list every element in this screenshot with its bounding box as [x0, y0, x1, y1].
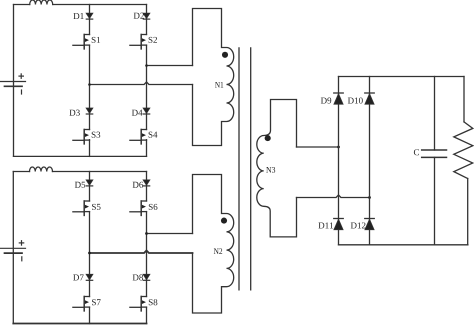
- battery V2: [1, 248, 26, 253]
- diode D3: [86, 108, 93, 114]
- diode D8: [143, 274, 150, 280]
- battery V2 plus sign: [19, 241, 23, 245]
- label D8: [133, 274, 143, 280]
- label S1: [92, 37, 100, 43]
- transistor S7 (MOSFET): [73, 297, 90, 311]
- label D10: [348, 98, 363, 104]
- label D7: [73, 275, 83, 281]
- wire node b2: leg3 midpoint to N2 bottom terminal, hop over leg4: [90, 250, 193, 253]
- transistor S5 (MOSFET): [73, 201, 90, 215]
- polarity dot N2: [221, 218, 227, 224]
- wire bridge leg 1 segments: [89, 5, 91, 35]
- label D11: [318, 222, 333, 228]
- wire rectifier bottom rail: [339, 244, 468, 246]
- diode D5: [86, 180, 93, 186]
- wire capacitor branch bottom: [434, 157, 436, 244]
- wire node a1: leg2 midpoint to N1 top terminal: [147, 65, 193, 67]
- transistor S6 (MOSFET): [130, 201, 147, 215]
- wire bridge leg 3 segments: [89, 172, 91, 202]
- transistor S2 (MOSFET): [130, 35, 147, 49]
- battery V1 minus tick: [21, 90, 23, 94]
- battery V1 plus sign: [19, 74, 23, 78]
- wire battery 1 vertical: [13, 5, 15, 157]
- battery V2 minus tick: [21, 257, 23, 261]
- label S7: [92, 299, 101, 305]
- label D6: [133, 182, 143, 188]
- label S5: [92, 204, 101, 210]
- label N3: [266, 167, 275, 173]
- wire top rail (bridge 2, left segment): [13, 171, 29, 173]
- wire rectifier leg a: [338, 77, 340, 245]
- label S2: [149, 37, 157, 43]
- label D2: [134, 13, 144, 19]
- wire top rail (bridge 1, left segment): [14, 4, 30, 6]
- diode D6: [143, 180, 150, 186]
- inductor L2: [30, 167, 53, 172]
- label N2: [214, 248, 222, 254]
- wire bottom rail (bridge 1): [14, 155, 147, 157]
- transformer core: [239, 48, 251, 290]
- wire capacitor branch top: [434, 77, 436, 151]
- label C: [414, 149, 419, 155]
- wire N3 bottom terminal to rectifier leg b, hop over leg a: [297, 195, 370, 198]
- wire battery 2 vertical: [12, 172, 14, 324]
- wire load branch top: [463, 77, 465, 122]
- resistor R load: [454, 122, 473, 179]
- label N1: [215, 82, 223, 88]
- wire N3 top terminal to rectifier leg a: [297, 146, 339, 148]
- transformer primary winding N1: [193, 9, 234, 146]
- wire rectifier top rail: [339, 76, 465, 78]
- label D1: [73, 13, 83, 19]
- diode D1: [86, 13, 93, 19]
- capacitor C: [422, 150, 447, 157]
- polarity dot N1: [222, 52, 228, 58]
- wire load branch bottom: [467, 179, 469, 245]
- diode D11: [334, 219, 344, 230]
- wire bridge leg 4 segments: [146, 172, 148, 202]
- label S3: [92, 132, 101, 138]
- diode D12: [365, 219, 375, 230]
- label D12: [351, 222, 366, 228]
- diode D9: [334, 93, 344, 104]
- label S8: [149, 299, 158, 305]
- label S6: [149, 204, 158, 210]
- wire bottom rail (bridge 2): [13, 323, 146, 325]
- diode D7: [86, 274, 93, 280]
- polarity dot N3: [265, 135, 271, 141]
- label D3: [69, 110, 79, 116]
- transistor S3 (MOSFET): [73, 130, 90, 144]
- transistor S8 (MOSFET): [130, 297, 147, 311]
- diode D10: [365, 93, 375, 104]
- label D9: [321, 98, 331, 104]
- wire rectifier leg b: [369, 77, 371, 245]
- wire top rail (bridge 1, right segment): [53, 4, 147, 6]
- label D4: [132, 110, 143, 116]
- wire top rail (bridge 2, right segment): [53, 171, 147, 173]
- wire bridge leg 2 segments: [146, 5, 148, 35]
- label D5: [75, 182, 85, 188]
- wire node b1: leg1 midpoint to N1 bottom terminal, hop over leg2: [90, 82, 193, 85]
- inductor L1: [30, 0, 53, 5]
- diode D4: [143, 108, 150, 114]
- wire node a2: leg4 midpoint to N2 top terminal: [147, 233, 193, 235]
- transformer secondary winding N3: [257, 100, 297, 237]
- diode D2: [143, 13, 150, 19]
- transistor S4 (MOSFET): [130, 130, 147, 144]
- battery V1: [1, 82, 26, 87]
- label S4: [149, 132, 158, 138]
- transformer primary winding N2: [193, 175, 234, 314]
- junction node dots: [88, 64, 371, 254]
- transistor S1 (MOSFET): [73, 35, 90, 49]
